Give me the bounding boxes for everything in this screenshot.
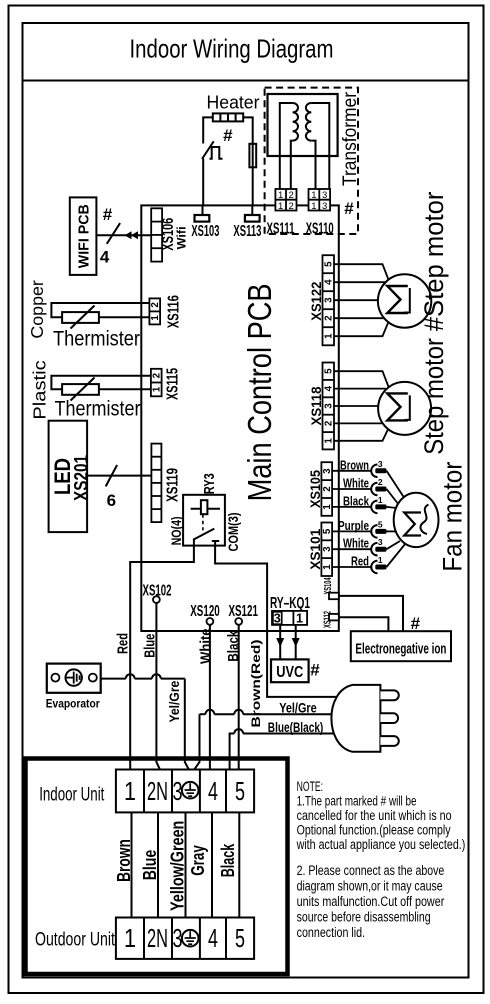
connector XS105 [307,462,333,516]
svg-text:Indoor Wiring Diagram: Indoor Wiring Diagram [130,34,334,64]
svg-text:2: 2 [150,302,161,308]
thermal switch [202,141,223,159]
svg-text:1: 1 [378,495,383,505]
svg-text:Red: Red [114,633,131,654]
svg-text:6: 6 [107,491,116,510]
wire switch to PCB [202,159,204,206]
svg-text:Thermister: Thermister [53,327,140,350]
wire brown(red) [267,631,338,697]
svg-text:5: 5 [322,528,333,534]
connector pad XS103 [191,205,219,240]
svg-text:diagram shown,or it may cause: diagram shown,or it may cause [297,879,443,894]
svg-text:Step motor: Step motor [419,338,449,455]
svg-text:Electronegative ion: Electronegative ion [355,641,446,658]
connector XS122 [308,255,335,345]
svg-text:Optional function.(please comp: Optional function.(please comply [297,823,451,838]
svg-text:Plastic: Plastic [29,360,49,420]
svg-text:Wifi: Wifi [175,226,189,249]
outdoor ground symbol [182,930,199,947]
svg-text:Blue(Black): Blue(Black) [268,719,324,735]
spade terminal 3b [371,537,400,555]
svg-text:XS116: XS116 [166,295,183,328]
wire COM(3) down [215,546,267,631]
svg-text:WIFI PCB: WIFI PCB [76,204,93,268]
svg-text:1.The part marked # will be: 1.The part marked # will be [297,794,417,809]
svg-text:#Step motor: #Step motor [419,191,449,331]
svg-text:Brown: Brown [114,839,134,882]
svg-text:Heater: Heater [207,93,260,113]
step motor 1 (M) [378,274,431,327]
svg-text:XS201: XS201 [72,455,93,501]
wire red [130,562,141,771]
svg-text:RY3: RY3 [201,473,218,494]
connector XS110 [306,189,334,238]
svg-text:3: 3 [322,190,327,201]
svg-text:1: 1 [311,190,316,201]
wire LED to XS119 [87,475,151,477]
svg-text:1: 1 [324,438,335,444]
svg-text:#: # [310,661,320,680]
fan motor (M) [394,493,439,547]
svg-text:Gray: Gray [188,845,208,876]
transformer T1 body [268,94,338,156]
svg-text:XS115: XS115 [165,368,182,400]
svg-text:3: 3 [322,546,333,552]
svg-text:1: 1 [322,504,333,510]
svg-text:Evaporator: Evaporator [46,697,100,711]
svg-text:2: 2 [152,372,163,378]
spade terminal 5 [371,519,395,537]
svg-text:3: 3 [274,610,281,625]
wire XS104 to electronegative ion [339,596,403,631]
UVC box [271,659,309,682]
wire wifi to XS106 [96,234,151,236]
svg-text:Outdoor Unit: Outdoor Unit [35,929,115,950]
svg-text:XS111: XS111 [267,221,295,238]
svg-text:Blue: Blue [141,634,158,658]
svg-text:2: 2 [289,201,294,212]
fan motor wire black [332,493,371,508]
svg-text:5: 5 [324,261,335,267]
svg-text:3: 3 [378,537,383,547]
svg-text:XS105: XS105 [307,470,323,508]
connector pad XS113 [233,205,261,240]
connector RY-KQ1 [270,595,310,625]
svg-text:Purple: Purple [338,518,369,533]
fuse F1 [249,144,256,168]
title separator line [23,80,469,82]
svg-text:5: 5 [324,368,335,374]
spade terminal 2 [371,477,399,505]
transformer secondary winding [306,103,329,189]
svg-text:XS121: XS121 [228,603,258,620]
svg-text:3: 3 [324,403,335,409]
step motor 2 (M) [378,382,431,435]
bus slash 6 [106,465,117,486]
spade terminal 1b [371,544,405,574]
svg-text:2: 2 [378,477,383,487]
connector XS112 [322,611,338,628]
svg-text:Yel/Gre: Yel/Gre [166,681,182,723]
fan motor wire brown [332,457,371,472]
svg-text:3: 3 [324,297,335,303]
svg-text:XS118: XS118 [308,386,324,425]
test point XS102 [143,583,172,603]
wire blue(black) to plug [230,729,334,771]
arrow wires RY-KQ1 to UVC [276,625,300,660]
svg-text:XS110: XS110 [306,221,334,238]
wire black [238,625,240,771]
WIFI PCB box [70,197,97,275]
svg-text:1: 1 [124,776,136,806]
svg-text:NO(4): NO(4) [169,516,184,545]
svg-text:Blue: Blue [140,850,160,881]
svg-text:#: # [103,205,113,224]
svg-text:Black: Black [343,493,370,508]
connector XS106 [151,208,188,261]
indoor terminal block [116,770,254,813]
fan motor wire white (3) [332,536,371,551]
connector XS116 [149,295,182,328]
svg-text:1: 1 [278,190,283,201]
svg-text:2. Please connect as the above: 2. Please connect as the above [297,863,445,878]
note text block [296,779,465,940]
arrow to wifi pcb [125,231,139,239]
svg-text:5: 5 [378,519,383,529]
svg-text:#: # [223,126,233,145]
connector XS119 [151,444,181,522]
transformer dashed enclosure [265,88,358,234]
svg-text:1: 1 [311,201,316,212]
main control PCB box [141,205,338,631]
wires XS122 to step motor 1 [334,264,392,336]
wire heater left [203,117,213,143]
interconnect wire 3 yellow/green [168,812,188,917]
svg-text:2N: 2N [147,776,168,806]
svg-text:White: White [343,476,369,491]
svg-text:2: 2 [322,486,333,492]
svg-text:1: 1 [296,610,303,625]
svg-text:2: 2 [324,315,335,321]
svg-text:XS119: XS119 [165,468,182,502]
svg-text:XS122: XS122 [308,282,324,321]
svg-text:Yellow/Green: Yellow/Green [168,821,188,911]
svg-text:Thermister: Thermister [55,398,141,421]
svg-text:4: 4 [208,923,218,953]
fan motor wire purple [332,518,371,533]
svg-text:UVC: UVC [276,664,303,681]
svg-text:1: 1 [278,201,283,212]
svg-text:Black: Black [218,843,238,877]
spade terminal 3 [371,459,404,498]
svg-text:2: 2 [289,190,294,201]
test point XS120 [190,603,220,625]
connector XS111 [267,189,297,238]
svg-text:4: 4 [100,248,110,267]
connector XS104 [323,577,339,599]
connector XS101 [307,523,333,577]
svg-text:connection lid.: connection lid. [297,925,366,940]
interconnect wire 2 blue [140,812,160,917]
power plug P1 [331,685,398,752]
svg-text:1: 1 [322,564,333,570]
connector XS115 [151,368,182,400]
svg-text:Main Control PCB: Main Control PCB [241,283,278,501]
svg-text:3: 3 [378,459,383,469]
svg-text:4: 4 [324,279,335,285]
svg-text:XS103: XS103 [191,223,219,240]
svg-text:Yel/Gre: Yel/Gre [279,700,317,716]
svg-text:#: # [411,614,421,633]
svg-text:Transformer: Transformer [340,91,361,186]
svg-text:Black: Black [225,630,242,662]
fan motor wire red [332,554,371,569]
svg-text:XS101: XS101 [307,529,323,570]
wire yel/gre to plug [194,710,333,771]
interconnect wire 5 black [218,812,239,917]
svg-text:2: 2 [324,420,335,426]
svg-text:Fan motor: Fan motor [437,461,467,571]
svg-text:2N: 2N [147,923,168,953]
wires XS118 to step motor 2 [334,371,392,441]
svg-text:units malfunction.Cut off powe: units malfunction.Cut off power [297,894,445,909]
svg-text:source before disassembling: source before disassembling [297,910,431,925]
svg-text:#: # [344,199,354,218]
spade terminal 1 [371,495,396,513]
svg-text:Red: Red [351,554,369,569]
fan motor wire white (2) [332,476,371,491]
bus slash 4 [107,223,120,244]
indoor ground symbol [182,782,199,799]
svg-text:cancelled for the unit which i: cancelled for the unit which is no [297,808,452,823]
svg-text:Indoor Unit: Indoor Unit [39,785,105,806]
wire blue [156,603,160,771]
svg-text:1: 1 [124,923,136,953]
svg-text:1: 1 [378,555,383,565]
svg-text:COM(3): COM(3) [226,513,241,552]
svg-text:White: White [197,628,214,664]
svg-text:with actual appliance you sele: with actual appliance you selected.) [296,837,465,852]
copper thermistor RT1 [51,303,149,329]
svg-text:1: 1 [150,315,161,321]
plastic thermistor RT2 [51,376,150,401]
svg-text:1: 1 [152,386,163,392]
interconnect wire 4 gray [188,812,212,917]
svg-text:NOTE:: NOTE: [297,779,324,794]
relay RY3 [169,473,241,551]
indoor/outdoor unit thick box [26,759,288,975]
wire XS112 to electronegative ion [339,617,389,631]
wire white [209,625,211,771]
svg-text:5: 5 [235,923,245,953]
outdoor terminal block [116,918,254,959]
transformer primary winding [280,103,298,189]
heater element [213,113,243,121]
svg-text:Brown: Brown [340,457,369,472]
svg-text:XS120: XS120 [190,603,220,620]
svg-text:1: 1 [324,333,335,339]
svg-text:5: 5 [235,776,245,806]
test point XS121 [228,603,258,625]
evaporator [46,664,101,711]
wire NO(4) to left edge [141,546,194,562]
connector XS118 [308,363,335,450]
LED XS201 box [49,421,88,532]
svg-text:4: 4 [208,776,218,806]
svg-text:4: 4 [324,385,335,391]
wire heater right [243,117,253,205]
interconnect wire 1 brown [114,812,134,917]
svg-text:3: 3 [322,201,327,212]
svg-text:White: White [343,536,369,551]
svg-text:XS113: XS113 [233,223,261,240]
svg-text:3: 3 [322,468,333,474]
wire evaporator to ground terminal [101,674,190,771]
electronegative ion box [351,631,451,661]
svg-text:Copper: Copper [27,280,47,339]
